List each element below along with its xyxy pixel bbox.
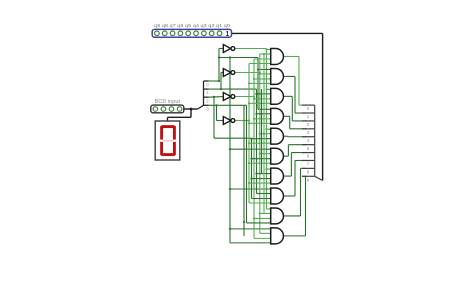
svg-text:7: 7 bbox=[307, 162, 310, 167]
svg-text:4: 4 bbox=[307, 138, 310, 143]
svg-text:3: 3 bbox=[307, 130, 310, 135]
svg-text:5: 5 bbox=[307, 146, 310, 151]
svg-text:2: 2 bbox=[206, 98, 209, 103]
svg-text:1: 1 bbox=[225, 31, 229, 38]
svg-text:2: 2 bbox=[307, 122, 310, 127]
svg-text:0: 0 bbox=[206, 82, 209, 87]
svg-text:0: 0 bbox=[307, 106, 310, 111]
svg-text:1: 1 bbox=[206, 90, 209, 95]
svg-text:3: 3 bbox=[206, 106, 209, 111]
svg-text:6: 6 bbox=[307, 154, 310, 159]
svg-text:9: 9 bbox=[307, 177, 310, 182]
svg-text:q9 q8 q7 q6 q5 q4 q3 q2 q1 q0: q9 q8 q7 q6 q5 q4 q3 q2 q1 q0 bbox=[154, 23, 231, 28]
svg-text:1: 1 bbox=[307, 114, 310, 119]
svg-text:BCD input: BCD input bbox=[155, 99, 181, 105]
svg-text:8: 8 bbox=[307, 169, 310, 174]
